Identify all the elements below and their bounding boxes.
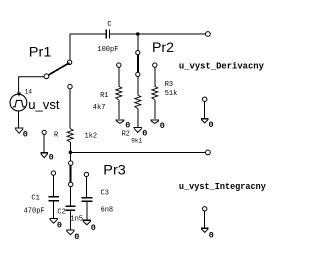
label C3 [101,190,109,198]
capacitor C3 plates [81,198,92,201]
svg-text:0: 0 [209,120,214,130]
svg-text:0: 0 [209,230,214,240]
wire C1 to ground [53,201,55,218]
pin circle of capacitor C3 [84,172,88,176]
node junction bottom [69,151,73,155]
ground under C1 [49,218,58,223]
label u_vyst_Derivacny [179,62,265,72]
svg-text:C1: C1 [31,195,39,203]
svg-text:0: 0 [160,121,165,131]
wire Pr2 to R2 [137,77,139,96]
wire R2 to ground [137,109,139,127]
net label 0 (R3 ground) [160,121,165,131]
wire bottom horizontal [70,151,205,153]
svg-text:6n8: 6n8 [101,206,114,214]
svg-text:Pr2: Pr2 [152,40,174,56]
label R3 [165,81,173,89]
wire R to junction [69,142,71,152]
svg-text:51k: 51k [165,90,178,98]
net label 0 (stub C) [209,230,214,240]
net label 0 (R1 ground) [125,121,130,131]
pin stub B circle [203,97,207,101]
svg-text:9k1: 9k1 [131,138,142,145]
label R [54,132,59,140]
pin terminal u_vyst_Derivacny [206,32,211,37]
pin stub A top circle [42,130,46,134]
ground under C3 [83,220,92,225]
net label 0 (source ground) [23,130,28,140]
net label 0 (C1 ground) [57,221,62,231]
label Pr2 [152,40,174,56]
svg-text:1n5: 1n5 [70,215,83,223]
pin number 14 [25,88,33,95]
svg-text:0: 0 [74,232,79,242]
svg-text:14: 14 [25,88,33,95]
capacitor C plates [106,30,109,39]
ground under R2 [134,128,143,133]
label 9k1 [131,138,142,145]
switch Pr1 pole contact [44,74,49,79]
svg-text:u_vst: u_vst [28,97,60,112]
ground under source [15,128,23,133]
node junction top (C to R dividers) [136,32,140,36]
pin stub C circle [203,207,207,211]
svg-text:470pF: 470pF [24,207,45,215]
wire stub B [204,101,206,118]
wire C1 pin to plates [53,175,55,196]
label 1n5 [70,215,83,223]
label u_vyst_Integracny [179,182,267,192]
wire junction to Pr2 [137,34,139,51]
capacitor C1 plates [48,197,59,201]
net label 0 (C3 ground) [91,223,96,233]
wire R pin to resistor [69,89,71,129]
resistor R2 body [135,95,141,109]
svg-text:C2: C2 [57,209,65,217]
net label 0 (R2 ground) [142,129,147,139]
svg-text:100pF: 100pF [97,46,118,54]
label R2 [122,130,130,138]
svg-text:0: 0 [125,121,130,131]
svg-text:Pr1: Pr1 [29,45,52,61]
net label 0 (stub A) [49,153,54,163]
switch Pr3 contact 1 [69,161,73,165]
wire Pr3 to C2 [70,187,72,206]
wire stub A [43,135,45,153]
svg-text:0: 0 [49,153,54,163]
switch Pr2 blade [137,55,139,72]
label C2 [57,209,65,217]
ground under R1 [116,120,125,124]
label 470pF [24,207,45,215]
wire R1 to ground [118,100,120,119]
svg-text:u_vyst_Derivacny: u_vyst_Derivacny [179,62,265,72]
switch Pr1 blade [49,63,70,75]
ground stub C [201,228,209,232]
svg-text:0: 0 [23,130,28,140]
switch Pr2 contact 1 [136,51,140,55]
pin circle of capacitor C1 [51,171,55,175]
svg-text:u_vyst_Integracny: u_vyst_Integracny [179,182,267,192]
wire R3 pin to body [154,67,156,86]
wire top horizontal left segment [70,33,106,35]
label u_vst [28,97,60,112]
label 4k7 [93,104,106,112]
label R1 [100,92,108,100]
label 100pF [97,46,118,54]
capacitor C2 plates [65,206,75,210]
label 1k2 [85,133,98,141]
label 6n8 [101,206,114,214]
svg-text:C3: C3 [101,190,109,198]
wire junction to Pr3 [70,152,72,161]
resistor R body [67,129,73,143]
source U_vst circle [10,94,27,111]
svg-text:Pr3: Pr3 [103,163,126,179]
pin circle of resistor R [68,84,72,88]
switch Pr1 fixed contact [67,60,71,64]
pin terminal u_vyst_Integracny [206,150,211,155]
net label 0 (C2 ground) [74,232,79,242]
source arrow [17,92,21,96]
svg-text:R1: R1 [100,92,108,100]
switch Pr3 contact 2 [69,182,73,186]
ground stub A [41,153,49,158]
wire from top to switch Pr1 [69,34,71,60]
label C [107,21,111,29]
wire R3 to ground [154,100,156,119]
pin circle of resistor R3 [153,63,157,67]
wire C2 to ground [69,211,71,229]
switch Pr3 blade [70,165,72,182]
svg-text:R3: R3 [165,81,173,89]
resistor R1 body [116,86,122,100]
svg-text:C: C [107,21,111,29]
svg-text:0: 0 [91,223,96,233]
ground stub B [201,119,209,123]
ground under C2 [66,230,75,235]
ground under R3 [151,120,160,124]
label Pr3 [103,163,126,179]
svg-text:0: 0 [57,221,62,231]
label Pr1 [29,45,52,61]
resistor R3 body [152,86,158,100]
wire stub C [204,211,206,228]
wire source to ground [18,111,20,127]
svg-text:0: 0 [142,129,147,139]
label 51k [165,90,178,98]
pin circle of resistor R1 [117,63,121,67]
wire C3 pin to plates [86,177,88,198]
svg-text:R2: R2 [122,130,130,138]
wire R1 pin to body [118,67,120,86]
svg-text:4k7: 4k7 [93,104,106,112]
wire Pr1 to source [19,77,44,93]
svg-text:1k2: 1k2 [85,133,98,141]
wire C3 to ground [86,202,88,220]
wire top horizontal right segment [110,33,205,35]
label C1 [31,195,39,203]
source pulse waveform [13,100,26,106]
switch Pr2 contact 2 [136,72,140,76]
net label 0 (stub B) [209,120,214,130]
